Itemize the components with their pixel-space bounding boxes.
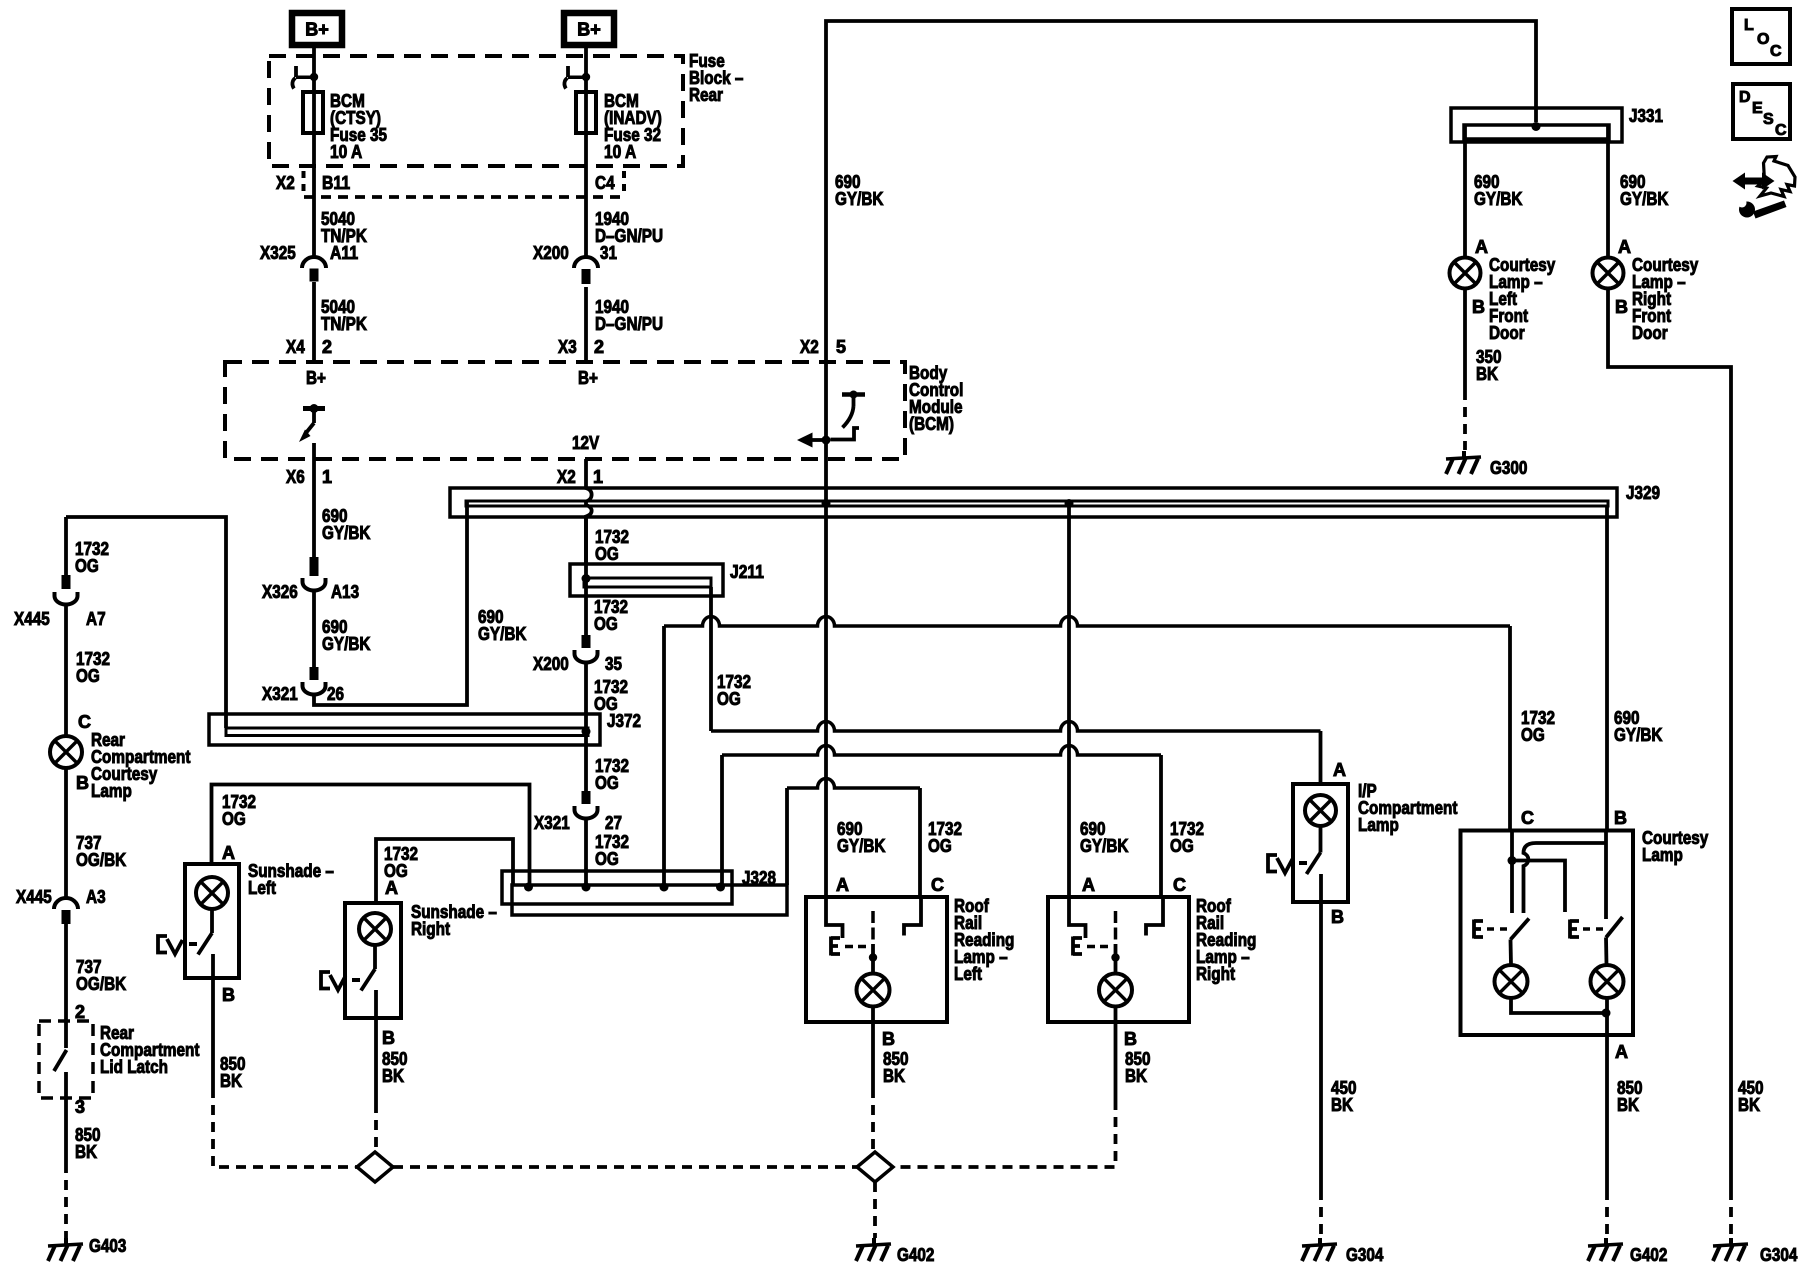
lamp in roof rail right bbox=[1099, 974, 1132, 1023]
wire 850 BK (sunshade right B to splice diamond) bbox=[376, 1018, 408, 1150]
svg-text:B: B bbox=[382, 1028, 395, 1048]
svg-text:27: 27 bbox=[605, 813, 622, 833]
switch+lamp unit: sunshade - left bbox=[185, 861, 334, 978]
svg-text:D–GN/PU: D–GN/PU bbox=[595, 314, 663, 334]
svg-text:Lamp: Lamp bbox=[91, 781, 132, 801]
svg-text:OG/BK: OG/BK bbox=[76, 974, 126, 994]
power symbol B+ (right feed) bbox=[564, 13, 614, 45]
wire 1732 OG (BCM X2-1 through J329 to J211) bbox=[557, 467, 629, 564]
wire 450 BK (I/P lamp B to G304) bbox=[1321, 902, 1357, 1240]
connector X321 pin 26 bbox=[262, 667, 344, 704]
svg-text:E: E bbox=[1752, 100, 1763, 117]
svg-text:B: B bbox=[1331, 907, 1344, 927]
lamp: courtesy lamp - right front door bbox=[1593, 255, 1699, 343]
switch in I/P compartment lamp bbox=[1268, 853, 1321, 903]
ground G300 bbox=[1446, 451, 1527, 478]
svg-text:GY/BK: GY/BK bbox=[322, 634, 371, 654]
svg-text:A11: A11 bbox=[330, 243, 358, 263]
svg-text:31: 31 bbox=[600, 243, 617, 263]
splice diamond (sunshade grounds) bbox=[357, 1152, 393, 1182]
wire 850 BK (roof rail right B to ground bus) bbox=[893, 1022, 1151, 1167]
lamp in sunshade left bbox=[196, 877, 228, 933]
lamp in sunshade right bbox=[359, 913, 391, 969]
connector X321 pin 27 bbox=[534, 791, 622, 833]
svg-text:BK: BK bbox=[382, 1066, 404, 1086]
svg-text:O: O bbox=[1757, 31, 1769, 48]
svg-text:A: A bbox=[1475, 237, 1488, 257]
svg-text:J329: J329 bbox=[1626, 483, 1660, 503]
svg-text:BK: BK bbox=[1125, 1066, 1147, 1086]
svg-text:OG: OG bbox=[595, 849, 619, 869]
svg-text:BK: BK bbox=[1331, 1095, 1353, 1115]
svg-text:X445: X445 bbox=[16, 887, 52, 907]
svg-text:OG: OG bbox=[594, 614, 618, 634]
svg-text:GY/BK: GY/BK bbox=[837, 836, 886, 856]
switch+lamp unit: roof rail reading lamp - left bbox=[806, 896, 1014, 1022]
svg-text:GY/BK: GY/BK bbox=[478, 624, 527, 644]
fuse F32: BCM (INADV) Fuse 32 10 A bbox=[576, 91, 662, 162]
wire 850 BK (courtesy lamp A to G402) bbox=[1607, 1035, 1643, 1240]
splice diamond (reading lamp grounds) bbox=[857, 1152, 893, 1182]
svg-text:TN/PK: TN/PK bbox=[321, 314, 367, 334]
roof rail right: contacts and switch bbox=[1069, 897, 1163, 974]
svg-text:Left: Left bbox=[954, 964, 982, 984]
svg-text:G300: G300 bbox=[1490, 458, 1527, 478]
svg-text:A: A bbox=[1333, 760, 1346, 780]
svg-text:G304: G304 bbox=[1346, 1245, 1383, 1265]
svg-text:12V: 12V bbox=[572, 433, 599, 453]
svg-text:10 A: 10 A bbox=[330, 142, 362, 162]
wire 690 GY/BK (J329 to roof rail right A) bbox=[1067, 506, 1071, 897]
ground G402 (center) bbox=[856, 1238, 934, 1265]
svg-text:X2: X2 bbox=[276, 173, 295, 193]
dashed ground bus between diamonds bbox=[393, 1165, 857, 1169]
wire 690 GY/BK (X326 to X321-26) bbox=[314, 591, 371, 667]
wire 690 GY/BK (BCM X6-1 to X326) bbox=[286, 443, 371, 557]
svg-text:35: 35 bbox=[605, 654, 622, 674]
switch+lamp unit: roof rail reading lamp - right bbox=[1048, 896, 1256, 1022]
connector row X2: pins B11 / C4 bbox=[276, 171, 624, 197]
wire 737 OG/BK (lamp B to X445-A3) bbox=[66, 768, 126, 898]
svg-text:OG: OG bbox=[222, 809, 246, 829]
svg-text:1: 1 bbox=[322, 467, 332, 487]
right lamp in courtesy lamp bbox=[1591, 965, 1624, 1035]
switch in sunshade left bbox=[158, 933, 213, 978]
wire 690 GY/BK (BCM X2-5 through J329 to roof rail left A) bbox=[824, 459, 828, 897]
legend icon: LOC box bbox=[1732, 9, 1790, 64]
svg-text:J211: J211 bbox=[730, 562, 764, 582]
svg-text:C: C bbox=[1775, 122, 1787, 139]
left switch in courtesy lamp bbox=[1474, 919, 1529, 966]
svg-text:2: 2 bbox=[322, 337, 332, 357]
svg-text:Left: Left bbox=[248, 878, 276, 898]
svg-text:A: A bbox=[222, 843, 235, 863]
svg-text:G304: G304 bbox=[1760, 1245, 1797, 1265]
svg-text:10 A: 10 A bbox=[604, 142, 636, 162]
svg-text:A13: A13 bbox=[331, 582, 359, 602]
svg-text:GY/BK: GY/BK bbox=[1080, 836, 1129, 856]
switch: rear compartment lid latch (dashed box) bbox=[39, 1021, 200, 1098]
svg-text:B: B bbox=[1615, 297, 1628, 317]
svg-text:X445: X445 bbox=[14, 609, 50, 629]
wire: X321-26 to splice J329 left leg bbox=[314, 501, 527, 705]
svg-text:X325: X325 bbox=[260, 243, 296, 263]
wire 1732 OG (J328 to sunshade right A) bbox=[376, 839, 513, 903]
junction on J329 at X2-5 wire bbox=[822, 499, 831, 508]
svg-text:GY/BK: GY/BK bbox=[1614, 725, 1663, 745]
wire 690 GY/BK (J331 to courtesy lamp right front) bbox=[1608, 126, 1669, 258]
svg-text:B: B bbox=[1124, 1029, 1137, 1049]
legend icon: navigation arrows and wrench bbox=[1733, 157, 1796, 219]
svg-text:BK: BK bbox=[220, 1071, 242, 1091]
wire 5040 TN/PK (X325 to BCM X4-2) bbox=[286, 282, 367, 362]
wire 1732 OG (J211 to I/P compartment lamp A) bbox=[711, 587, 1321, 784]
svg-text:A: A bbox=[1618, 237, 1631, 257]
svg-text:BK: BK bbox=[1617, 1095, 1639, 1115]
svg-text:2: 2 bbox=[594, 337, 604, 357]
svg-text:B11: B11 bbox=[322, 173, 350, 193]
courtesy lamp internal C node bbox=[1508, 830, 1517, 913]
svg-text:G403: G403 bbox=[89, 1236, 126, 1256]
wire 1940 D-GN/PU (X200 to BCM X3-2) bbox=[558, 287, 663, 362]
ground G403 bbox=[48, 1236, 126, 1261]
wire: J372 rail riser to rear compartment lamp bbox=[66, 517, 226, 728]
connector X200 pin 31 bbox=[533, 243, 617, 284]
svg-text:1: 1 bbox=[593, 467, 603, 487]
svg-text:X326: X326 bbox=[262, 582, 298, 602]
wire 5040 TN/PK (fuse 35 to X325) bbox=[314, 133, 367, 256]
labels for roof rail left pins bbox=[836, 819, 962, 895]
courtesy lamp internal crossover to right switch bbox=[1512, 861, 1565, 913]
junction on J331 bbox=[1532, 122, 1541, 131]
svg-text:BK: BK bbox=[1476, 364, 1498, 384]
svg-text:OG: OG bbox=[76, 666, 100, 686]
svg-text:GY/BK: GY/BK bbox=[1474, 189, 1523, 209]
ground G304 (center) bbox=[1302, 1238, 1383, 1265]
svg-text:X321: X321 bbox=[534, 813, 570, 833]
splice J331 bbox=[1451, 106, 1663, 142]
wire 1732 OG (to X445-A7) bbox=[66, 517, 109, 576]
svg-text:A: A bbox=[385, 878, 398, 898]
svg-text:X2: X2 bbox=[800, 337, 819, 357]
svg-text:G402: G402 bbox=[1630, 1245, 1667, 1265]
right switch in courtesy lamp bbox=[1570, 917, 1623, 965]
wire 350 BK (lamp to G300) bbox=[1465, 289, 1502, 451]
switch in sunshade right bbox=[321, 969, 376, 1018]
svg-text:B+: B+ bbox=[305, 20, 329, 40]
svg-text:C: C bbox=[1521, 808, 1534, 828]
svg-text:X200: X200 bbox=[533, 654, 569, 674]
svg-text:OG/BK: OG/BK bbox=[76, 850, 126, 870]
svg-text:C: C bbox=[1173, 875, 1186, 895]
svg-text:Door: Door bbox=[1489, 323, 1525, 343]
svg-text:5: 5 bbox=[836, 337, 846, 357]
wire 1732 OG (X321-27 to J328) bbox=[586, 818, 629, 885]
svg-text:X200: X200 bbox=[533, 243, 569, 263]
svg-text:A: A bbox=[1615, 1042, 1628, 1062]
switch+lamp unit: sunshade - right bbox=[345, 902, 497, 1018]
labels for roof rail right pins bbox=[1080, 819, 1204, 895]
label 1732 OG on courtesy lamp C riser bbox=[1521, 708, 1555, 828]
svg-text:A: A bbox=[1082, 875, 1095, 895]
svg-text:J331: J331 bbox=[1629, 106, 1663, 126]
wire 1732 OG (J372 to X321-27) bbox=[586, 714, 629, 793]
svg-text:Lamp: Lamp bbox=[1642, 845, 1683, 865]
lamp in I/P compartment lamp bbox=[1305, 795, 1336, 853]
wire 850 BK (roof rail left B to splice diamond) bbox=[873, 1022, 909, 1150]
svg-text:X2: X2 bbox=[557, 467, 576, 487]
wire: B+ into fuse 35 bbox=[312, 48, 316, 92]
wire 850 BK (sunshade left B to splice diamond) bbox=[213, 978, 357, 1167]
body control module (BCM) dashed box bbox=[225, 362, 963, 459]
svg-text:X6: X6 bbox=[286, 467, 305, 487]
svg-text:C4: C4 bbox=[595, 173, 615, 193]
svg-text:Lamp: Lamp bbox=[1358, 815, 1399, 835]
power symbol B+ (left feed) bbox=[292, 13, 342, 45]
svg-text:L: L bbox=[1744, 17, 1754, 34]
roof rail left: contacts and switch bbox=[826, 897, 921, 974]
svg-text:S: S bbox=[1763, 111, 1774, 128]
svg-text:B+: B+ bbox=[577, 20, 601, 40]
svg-text:X321: X321 bbox=[262, 684, 298, 704]
svg-text:B: B bbox=[76, 773, 89, 793]
svg-text:G402: G402 bbox=[897, 1245, 934, 1265]
BCM internal driver on X2-5 line (arrow + coil blade) bbox=[797, 362, 865, 459]
svg-text:Rear: Rear bbox=[689, 85, 723, 105]
wire: B+ into fuse 32 bbox=[584, 48, 588, 92]
fuse element hook (fuse 32) bbox=[564, 66, 590, 89]
svg-text:B: B bbox=[222, 985, 235, 1005]
connector X325 pin A11 bbox=[260, 243, 358, 282]
svg-text:C: C bbox=[1770, 43, 1782, 60]
splice J372 bbox=[209, 711, 641, 745]
connector X445 pin A7 bbox=[14, 575, 106, 629]
svg-text:GY/BK: GY/BK bbox=[322, 523, 371, 543]
svg-text:BK: BK bbox=[883, 1066, 905, 1086]
switch+lamp unit: I/P compartment lamp bbox=[1293, 760, 1458, 902]
wire hop: 1732 OG wire crossing J329 (no connection) bbox=[586, 459, 592, 564]
svg-text:OG: OG bbox=[1521, 725, 1545, 745]
svg-text:Lid Latch: Lid Latch bbox=[100, 1057, 168, 1077]
svg-text:GY/BK: GY/BK bbox=[1620, 189, 1669, 209]
wire 690 GY/BK (J329 rail to courtesy lamp B) bbox=[1607, 506, 1663, 830]
wire 1940 D-GN/PU (fuse 32 to X200) bbox=[586, 133, 663, 256]
wire 1732 OG (J328 to roof rail right C) bbox=[722, 746, 1161, 898]
svg-text:X3: X3 bbox=[558, 337, 577, 357]
svg-text:OG: OG bbox=[75, 556, 99, 576]
svg-text:26: 26 bbox=[327, 684, 344, 704]
svg-text:D: D bbox=[1739, 89, 1751, 106]
svg-text:B: B bbox=[1472, 297, 1485, 317]
wire 737 OG/BK (X445-A3 to lid latch pin 2) bbox=[66, 924, 126, 1022]
wire 450 BK (right front lamp to G304) bbox=[1608, 289, 1764, 1241]
wire 1732 OG (J328 to courtesy lamp C, hops over three wires) bbox=[664, 617, 1510, 886]
svg-text:A: A bbox=[836, 875, 849, 895]
junction on J329 at roof rail right feed bbox=[1065, 499, 1074, 508]
lamp: courtesy lamp - left front door bbox=[1450, 255, 1556, 343]
junctions on J328 bbox=[524, 883, 533, 892]
wire 690 GY/BK (BCM X2-5 riser to top bus) bbox=[800, 21, 1536, 362]
switch+lamp unit: courtesy lamp (console) bbox=[1461, 828, 1709, 1035]
lamp in roof rail left bbox=[857, 974, 890, 1023]
wire to G402 below diamond bbox=[873, 1182, 877, 1238]
svg-text:(BCM): (BCM) bbox=[909, 414, 954, 434]
svg-text:J328: J328 bbox=[742, 868, 776, 888]
connector X200 pin 35 bbox=[533, 635, 622, 674]
svg-text:A7: A7 bbox=[86, 609, 106, 629]
splice J328 bbox=[502, 868, 787, 915]
junction on J372 bbox=[582, 727, 591, 736]
svg-text:B: B bbox=[882, 1029, 895, 1049]
legend icon: DESC box bbox=[1733, 84, 1790, 139]
svg-text:OG: OG bbox=[717, 689, 741, 709]
svg-text:2: 2 bbox=[75, 1002, 85, 1022]
wire 850 BK (latch pin 3 to G403) bbox=[66, 1097, 101, 1238]
svg-text:OG: OG bbox=[1170, 836, 1194, 856]
ground G304 (right) bbox=[1713, 1238, 1797, 1265]
svg-text:Right: Right bbox=[1196, 964, 1235, 984]
splice J211 bbox=[570, 562, 764, 596]
svg-text:B: B bbox=[1614, 808, 1627, 828]
fuse F35: BCM (CTSY) Fuse 35 10 A bbox=[303, 91, 387, 162]
svg-text:J372: J372 bbox=[607, 711, 641, 731]
courtesy lamp internal B branch (hops over crossover) bbox=[1524, 830, 1607, 919]
splice J329 (courtesy feed bus) bbox=[450, 483, 1660, 517]
svg-text:C: C bbox=[78, 712, 91, 732]
svg-text:GY/BK: GY/BK bbox=[835, 189, 884, 209]
wire 690 GY/BK (J331 to courtesy lamp left front) bbox=[1465, 126, 1523, 258]
left lamp in courtesy lamp bbox=[1495, 965, 1607, 1013]
wire 1732 OG (J328 to sunshade left A) bbox=[212, 785, 530, 886]
connector X326 pin A13 bbox=[262, 557, 359, 602]
wire 1732 OG (J211 to X200-35) bbox=[586, 564, 628, 635]
svg-text:BK: BK bbox=[1738, 1095, 1760, 1115]
ground G402 (right) bbox=[1588, 1238, 1667, 1265]
wire 1732 OG (J328 rail to roof rail left C) bbox=[787, 779, 920, 897]
lamp: rear compartment courtesy lamp bbox=[50, 730, 191, 801]
svg-text:Right: Right bbox=[411, 919, 450, 939]
svg-text:OG: OG bbox=[595, 544, 619, 564]
fuse block - rear (dashed enclosure) bbox=[269, 51, 743, 166]
svg-text:A3: A3 bbox=[86, 887, 106, 907]
svg-text:3: 3 bbox=[75, 1097, 85, 1117]
svg-text:C: C bbox=[931, 875, 944, 895]
svg-text:BK: BK bbox=[75, 1142, 97, 1162]
fuse element hook (fuse 35) bbox=[292, 66, 318, 89]
svg-text:OG: OG bbox=[928, 836, 952, 856]
junction on J211 bbox=[582, 574, 591, 583]
wire 1732 OG (X200-35 to J372) bbox=[586, 662, 628, 714]
svg-text:B+: B+ bbox=[578, 368, 598, 388]
BCM internal switch (courtesy output driver) bbox=[299, 404, 325, 442]
svg-text:Door: Door bbox=[1632, 323, 1668, 343]
svg-text:B+: B+ bbox=[306, 368, 326, 388]
connector X445 pin A3 bbox=[16, 887, 106, 924]
wire 1732 OG (X445-A7 to lamp C) bbox=[66, 604, 110, 736]
svg-text:OG: OG bbox=[595, 773, 619, 793]
svg-text:X4: X4 bbox=[286, 337, 305, 357]
